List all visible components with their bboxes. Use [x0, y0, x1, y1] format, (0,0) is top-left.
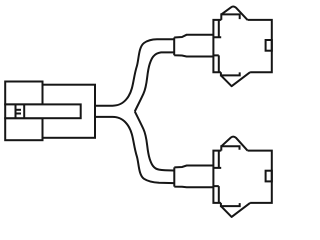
wire W1 upper top line [95, 39, 174, 105]
connector J2 (bottom right) body outline [213, 151, 271, 203]
connector J2 inner wall top [214, 151, 221, 168]
connector J1 bottom latch peak [221, 72, 250, 86]
wire W2 lower top line [135, 111, 174, 170]
connector J2 bottom latch lip [221, 203, 240, 206]
connector J2 inner wall bottom [214, 186, 219, 203]
connector J2 top latch lip [221, 146, 239, 150]
connector J1 inner wall top [214, 20, 221, 37]
connector P1 key detail bar 1 [16, 109, 22, 111]
connector P1 key detail vertical 1 [15, 104, 17, 118]
connector J1 top latch peak [221, 6, 247, 19]
connector J1 right-edge notch [266, 40, 272, 51]
connector J1 inner wall bottom [214, 55, 219, 72]
connector P1 bottom-left block [5, 118, 42, 140]
wire W2 lower bottom line [95, 117, 174, 183]
connector P1 body [40, 85, 95, 138]
connector J1 (top right) body outline [213, 20, 271, 72]
connector P1 key detail vertical 2 [23, 104, 25, 118]
connector J2 bottom latch peak [221, 203, 250, 217]
connector J1 bottom latch lip [221, 72, 240, 75]
connector J1 top latch lip [221, 14, 239, 20]
connector J2 top latch peak [221, 137, 247, 151]
connector J2 right-edge notch [266, 171, 272, 182]
connector P1 top-left block [5, 82, 42, 105]
terminal T2 (lower ferrule) outline [174, 166, 213, 188]
terminal T1 (upper ferrule) outline [174, 35, 213, 57]
connector P1 center slot [5, 104, 81, 118]
wire W1 upper bottom line [135, 52, 174, 111]
connector P1 key detail bar 2 [16, 113, 22, 115]
